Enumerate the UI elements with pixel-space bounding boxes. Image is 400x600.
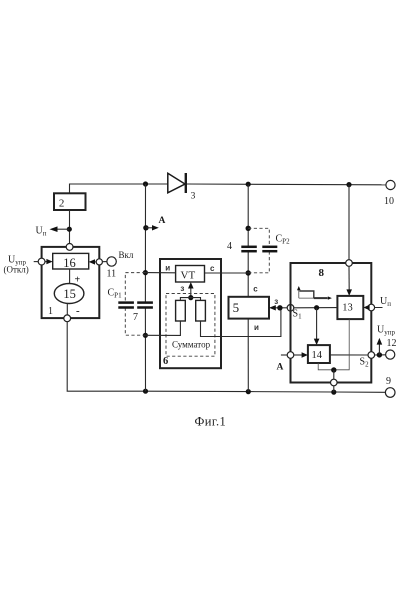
summator 15 (ellipse) bbox=[54, 284, 84, 304]
node circle S2 on box8 right edge bbox=[368, 352, 375, 359]
wire A stub outside bbox=[281, 354, 287, 356]
diode 3 bbox=[168, 173, 196, 202]
svg-text:Вкл: Вкл bbox=[119, 250, 134, 260]
node junction Uупр out bbox=[377, 352, 382, 357]
wire Uупр input stub bbox=[34, 261, 39, 263]
wire right resistor bottom to S1 node bbox=[201, 308, 281, 337]
wire block13 bottom thin bbox=[318, 319, 349, 370]
wire into 16 left with arrow bbox=[45, 261, 49, 263]
capacitor 4 bbox=[227, 241, 257, 252]
node circle S1 on box8 edge bbox=[287, 305, 294, 312]
node circle box8 top bbox=[346, 260, 353, 267]
node junction left rail / summator return bbox=[143, 333, 148, 338]
wire S1 node to block5 with arrow bbox=[274, 307, 288, 309]
wire box8 bottom to bus bbox=[333, 386, 335, 392]
wire top bus left segment bbox=[70, 184, 168, 193]
capacitor 7 bbox=[133, 303, 153, 324]
svg-text:5: 5 bbox=[233, 300, 240, 315]
node junction з/S1 bbox=[277, 305, 282, 310]
terminal 9 bbox=[385, 376, 395, 397]
node junction bottom bus left rail bbox=[143, 389, 148, 394]
wire 15 to box1 bottom bbox=[66, 304, 68, 316]
svg-text:с: с bbox=[253, 284, 258, 293]
svg-text:Фиг.1: Фиг.1 bbox=[195, 414, 227, 428]
svg-text:(Откл): (Откл) bbox=[4, 265, 29, 275]
svg-text:9: 9 bbox=[386, 376, 391, 387]
wire left resistor bottom to left rail bbox=[145, 321, 180, 335]
svg-text:3: 3 bbox=[191, 192, 196, 202]
left rail bbox=[144, 184, 146, 391]
svg-text:11: 11 bbox=[107, 269, 117, 280]
node junction bottom bus block5 bbox=[246, 389, 251, 394]
node circle box1 right bbox=[96, 259, 102, 265]
node A tap on left rail bbox=[143, 225, 148, 230]
resistor R-right of summator bbox=[196, 300, 206, 321]
wire gate arrow into VT bbox=[190, 287, 192, 298]
wire Uп into block13 with arrow bbox=[367, 307, 383, 309]
wire block14 to S2 bbox=[330, 354, 368, 356]
dashed box summator bbox=[166, 294, 215, 357]
dashed box Cp2 bbox=[248, 228, 269, 272]
node circle box1 bottom bbox=[64, 315, 71, 322]
terminal 10 bbox=[384, 180, 395, 207]
wire resistor tops to gate node bbox=[180, 298, 200, 301]
wire VT drain to right rail bbox=[205, 272, 249, 274]
box 6 (switch unit) bbox=[160, 259, 221, 368]
node junction right rail VT drain bbox=[246, 270, 251, 275]
block 5 bbox=[229, 297, 270, 319]
node circle A on box8 left edge bbox=[287, 352, 294, 359]
svg-text:10: 10 bbox=[384, 196, 394, 207]
wire node A arrow bbox=[146, 227, 154, 229]
node junction top bus at left rail bbox=[143, 181, 148, 186]
node circle Uп on box8 right edge bbox=[368, 304, 375, 311]
svg-text:7: 7 bbox=[133, 312, 138, 323]
svg-text:Сумматор: Сумматор bbox=[172, 340, 211, 350]
block 2 bbox=[54, 193, 86, 210]
node Uп tap bbox=[67, 227, 72, 232]
wire down to box8 bottom circle bbox=[333, 370, 335, 379]
svg-text:2: 2 bbox=[59, 197, 65, 209]
block 14 bbox=[308, 345, 330, 363]
wire top bus right segment bbox=[186, 183, 386, 186]
svg-text:и: и bbox=[165, 264, 170, 273]
svg-text:13: 13 bbox=[342, 303, 353, 314]
wire into block13 top with arrow bbox=[348, 266, 350, 291]
svg-text:8: 8 bbox=[319, 267, 325, 279]
capacitor Cp1 (parasitic, dashed branch) bbox=[118, 303, 134, 308]
wire A into block14 with arrow bbox=[294, 354, 304, 356]
svg-text:6: 6 bbox=[163, 356, 168, 367]
wire bottom bus middle bbox=[146, 391, 386, 392]
svg-text:14: 14 bbox=[312, 350, 323, 361]
capacitor Cp2 (parasitic, dashed branch) bbox=[262, 247, 277, 251]
node junction left rail / VT source wire bbox=[143, 270, 148, 275]
wire top bus down to box8 bbox=[348, 185, 350, 260]
box 8 (control unit) bbox=[291, 263, 372, 383]
node junction S1 line / block14 drop bbox=[314, 305, 319, 310]
svg-text:15: 15 bbox=[63, 287, 76, 301]
svg-text:VT: VT bbox=[181, 270, 196, 282]
node circle box1 top bbox=[66, 244, 73, 251]
svg-text:А: А bbox=[159, 216, 166, 226]
node junction summator output bbox=[188, 295, 193, 300]
terminal 12 bbox=[386, 338, 397, 359]
wire Uупр up arrow bbox=[378, 343, 380, 355]
node junction top bus at right rail bbox=[246, 182, 251, 187]
wire 16 to 15 bbox=[69, 269, 71, 284]
transistor VT block bbox=[176, 266, 205, 283]
svg-text:1: 1 bbox=[48, 306, 53, 317]
node circle box1 left input bbox=[38, 258, 45, 265]
wire block2 to box1 bbox=[69, 210, 71, 243]
block 13 bbox=[337, 296, 363, 319]
svg-text:А: А bbox=[277, 363, 284, 373]
block 16 bbox=[53, 253, 89, 270]
node junction thin bus bbox=[331, 367, 336, 372]
node junction top bus at box8 drop bbox=[346, 182, 351, 187]
terminal 11 bbox=[102, 257, 116, 280]
right rail bbox=[247, 184, 249, 391]
block 1 (stabilized source) bbox=[42, 247, 100, 318]
node circle box8 bottom bbox=[331, 379, 338, 386]
svg-text:с: с bbox=[210, 264, 215, 273]
node junction bottom bus box8 bbox=[331, 390, 336, 395]
wire VT source to left rail bbox=[145, 272, 175, 274]
svg-text:и: и bbox=[254, 323, 259, 332]
wire box1 bottom down to bottom bus bbox=[67, 322, 145, 392]
svg-text:4: 4 bbox=[227, 241, 232, 252]
wire into 16 right with arrow bbox=[93, 261, 97, 263]
dashed box Cp1 bbox=[125, 273, 145, 336]
svg-text:12: 12 bbox=[387, 338, 397, 349]
wire S2 to terminal 12 bbox=[375, 354, 386, 356]
wire Uп arrow bbox=[55, 228, 69, 230]
resistor R-left of summator bbox=[176, 300, 186, 321]
wire S1 to block13 bbox=[294, 307, 338, 309]
svg-text:-: - bbox=[76, 305, 80, 317]
svg-text:з: з bbox=[274, 297, 278, 306]
icon step waveform bbox=[297, 286, 332, 300]
svg-text:16: 16 bbox=[63, 256, 75, 270]
svg-text:з: з bbox=[180, 284, 184, 293]
node junction right rail top of dashed box bbox=[246, 226, 251, 231]
wire down into block14 with arrow bbox=[316, 308, 318, 341]
